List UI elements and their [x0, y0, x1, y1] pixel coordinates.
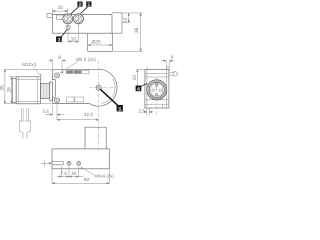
svg-text:7.5: 7.5	[60, 171, 67, 176]
svg-text:4: 4	[137, 86, 140, 92]
svg-text:4.5: 4.5	[42, 109, 49, 114]
svg-text:38: 38	[134, 27, 140, 33]
svg-text:15: 15	[58, 5, 64, 11]
svg-text:M12x1: M12x1	[22, 62, 36, 67]
svg-text:5: 5	[118, 107, 121, 113]
svg-text:60: 60	[84, 177, 90, 182]
svg-text:10: 10	[71, 171, 77, 176]
svg-text:Ø25: Ø25	[91, 39, 101, 45]
svg-text:2.5: 2.5	[138, 109, 145, 114]
svg-text:M3x4 (2x): M3x4 (2x)	[94, 174, 114, 179]
svg-text:9: 9	[58, 55, 61, 61]
svg-text:10: 10	[71, 36, 77, 42]
svg-text:3: 3	[58, 37, 61, 43]
svg-text:10: 10	[122, 17, 128, 23]
svg-text:42.5: 42.5	[84, 112, 94, 117]
svg-text:Ø4.5 (2x): Ø4.5 (2x)	[76, 57, 96, 62]
svg-text:2: 2	[79, 2, 82, 8]
svg-text:28: 28	[7, 87, 13, 93]
svg-text:4: 4	[171, 55, 174, 60]
svg-text:35: 35	[0, 85, 5, 91]
svg-text:20: 20	[132, 75, 137, 81]
svg-text:1: 1	[87, 2, 90, 8]
